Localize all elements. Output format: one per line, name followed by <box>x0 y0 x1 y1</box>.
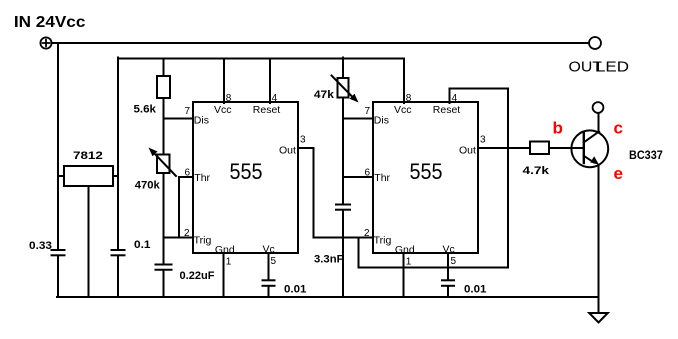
svg-text:Dis: Dis <box>374 115 389 127</box>
collector terminal circle <box>593 102 604 113</box>
svg-text:Out: Out <box>459 145 476 157</box>
svg-text:555: 555 <box>230 159 263 184</box>
svg-text:7: 7 <box>185 106 191 117</box>
svg-text:6: 6 <box>365 168 371 179</box>
ground symbol <box>589 313 608 323</box>
svg-text:3: 3 <box>300 135 306 146</box>
wire Thr2 pin 6 <box>343 176 373 178</box>
svg-text:47k: 47k <box>314 89 335 101</box>
wire 12V vertical upper <box>117 58 119 250</box>
svg-text:0.22uF: 0.22uF <box>180 270 215 282</box>
svg-text:BC337: BC337 <box>629 148 663 162</box>
wire 470k to Trig node <box>163 173 165 264</box>
wire 4.7k to base <box>549 147 584 149</box>
wire 0.22uF to ground rail <box>163 270 165 297</box>
wire Dis2 pin 7 <box>343 118 373 120</box>
svg-text:7: 7 <box>365 106 371 117</box>
regulator 7812 <box>64 166 113 186</box>
svg-text:Vcc: Vcc <box>214 104 232 116</box>
svg-text:Thr: Thr <box>194 172 210 184</box>
svg-text:b: b <box>553 119 563 138</box>
svg-text:3: 3 <box>480 135 486 146</box>
IC U2 555 <box>373 102 478 253</box>
svg-text:c: c <box>614 119 623 138</box>
wire 0.01 U2 to ground rail <box>447 286 449 297</box>
wire emitter to ground <box>598 165 600 313</box>
svg-text:4: 4 <box>272 93 278 104</box>
variable resistor 470k <box>149 148 177 177</box>
input terminal + <box>40 37 51 48</box>
wire 0.1 to ground rail <box>117 256 119 297</box>
svg-text:Gnd: Gnd <box>215 244 235 256</box>
wire bottom ground rail <box>57 296 599 298</box>
wire 7812 output stub <box>113 175 118 177</box>
capacitor 3.3nF <box>336 205 350 210</box>
capacitor 0.1 <box>112 250 125 255</box>
variable resistor 47k <box>332 58 359 103</box>
wire 0.33 to ground rail <box>57 256 59 297</box>
wire Thr1 stub pin 6 <box>179 176 193 178</box>
capacitor 0.33 <box>52 250 65 255</box>
svg-text:7812: 7812 <box>73 150 103 162</box>
capacitor 0.01 at U2 Vc <box>442 280 454 286</box>
svg-text:5: 5 <box>271 256 277 267</box>
svg-text:Gnd: Gnd <box>395 244 415 256</box>
wire control rail y267.5 <box>359 267 509 269</box>
svg-text:3.3nF: 3.3nF <box>314 254 344 266</box>
svg-text:470k: 470k <box>135 180 161 192</box>
svg-text:e: e <box>614 164 623 183</box>
output terminal OUTLED <box>589 37 601 49</box>
svg-text:Reset: Reset <box>253 104 281 116</box>
svg-text:4.7k: 4.7k <box>523 165 551 177</box>
svg-text:555: 555 <box>410 159 443 184</box>
wire Out1 to Trig2 <box>298 148 373 238</box>
wire Gnd2 pin 1 <box>403 253 405 297</box>
label OUTLED <box>569 59 630 76</box>
svg-text:Out: Out <box>279 145 296 157</box>
wire Out2 to base resistor <box>478 147 530 149</box>
svg-text:1: 1 <box>406 257 412 268</box>
wire Reset1 pin 4 <box>269 59 271 104</box>
wire Vcc1 pin 8 <box>223 59 225 104</box>
wire Trig2 jog <box>358 238 360 268</box>
resistor 4.7k <box>530 142 549 155</box>
svg-text:Reset: Reset <box>433 104 461 116</box>
svg-text:4: 4 <box>452 93 458 104</box>
svg-text:5: 5 <box>451 256 457 267</box>
wire 0.01 to ground rail <box>268 286 270 297</box>
svg-text:LED: LED <box>596 59 629 76</box>
wire Dis1 pin 7 <box>164 118 194 120</box>
wire Vc2 pin 5 <box>447 253 449 280</box>
svg-text:Dis: Dis <box>194 115 209 127</box>
wire 12V top rail <box>118 58 404 60</box>
capacitor 0.01 at U1 Vc <box>263 280 275 286</box>
svg-text:2: 2 <box>364 228 370 239</box>
capacitor 0.22uF <box>156 265 172 270</box>
wire 7812 input stub <box>58 175 64 177</box>
svg-text:6: 6 <box>185 168 191 179</box>
svg-text:0.01: 0.01 <box>464 284 487 296</box>
wire 47k to 3.3nF node <box>342 98 344 205</box>
svg-text:1: 1 <box>226 257 232 268</box>
wire Reset2 loop <box>450 89 509 268</box>
wire top rail <box>52 42 589 44</box>
wire input vertical upper <box>57 43 59 250</box>
wire Trig1 pin 2 <box>164 237 194 239</box>
svg-text:2: 2 <box>184 228 190 239</box>
svg-text:0.01: 0.01 <box>284 284 307 296</box>
wire Vc1 pin 5 <box>268 253 270 280</box>
wire collector to terminal <box>598 113 600 132</box>
wire 3.3nF to ground rail <box>342 210 344 297</box>
svg-text:Thr: Thr <box>374 172 390 184</box>
wire 7812 ground pin <box>88 186 90 297</box>
svg-text:0.33: 0.33 <box>29 240 52 252</box>
svg-text:8: 8 <box>406 93 412 104</box>
transistor Q1 BC337 <box>571 130 608 167</box>
svg-text:Vcc: Vcc <box>394 104 412 116</box>
svg-text:IN 24Vcc: IN 24Vcc <box>14 14 86 31</box>
wire Thr1 to Trig1 jog <box>178 177 180 238</box>
svg-text:8: 8 <box>226 93 232 104</box>
svg-text:Trig: Trig <box>374 235 392 247</box>
svg-text:0.1: 0.1 <box>134 239 151 251</box>
svg-text:Trig: Trig <box>194 235 212 247</box>
wire 5.6k to 470k <box>163 98 165 155</box>
wire Gnd1 pin 1 <box>223 253 225 297</box>
wire Vcc2 drop <box>403 59 405 104</box>
svg-text:5.6k: 5.6k <box>134 104 157 116</box>
IC U1 555 <box>193 102 298 253</box>
resistor 5.6k <box>157 59 170 99</box>
